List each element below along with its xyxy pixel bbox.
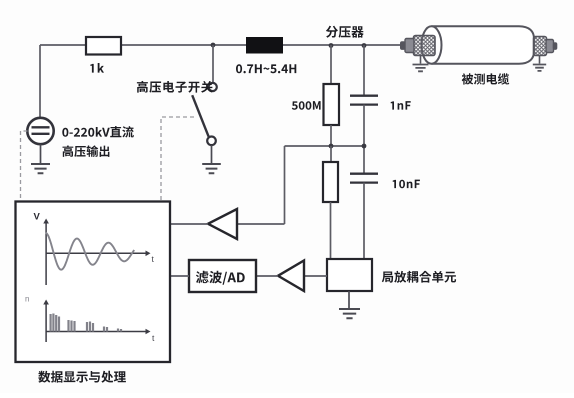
- cable right connector hatched: [534, 37, 547, 56]
- wire source drop: [39, 45, 41, 118]
- label 高压输出: [63, 145, 110, 157]
- waveform damped sine: [46, 233, 135, 270]
- discharge bars: [50, 314, 52, 332]
- wire filter box to display: [170, 275, 189, 277]
- switch S1 high-voltage electronic switch: [209, 83, 217, 91]
- capacitor C2 10nF: [350, 174, 378, 183]
- node junction divider R top: [329, 43, 334, 48]
- wire switch drop: [212, 45, 214, 83]
- wire R2 to tap: [330, 125, 332, 146]
- node junction at switch tap: [211, 43, 216, 48]
- node tap R: [329, 144, 334, 149]
- cable left connector block: [405, 39, 414, 53]
- dashed control line from source: [21, 131, 28, 201]
- inductor L1: [246, 37, 283, 54]
- svg-text:n: n: [25, 295, 29, 304]
- resistor R2 500M: [324, 84, 340, 125]
- wire C2 to coupling box: [363, 183, 365, 259]
- wire cable left ground: [420, 56, 422, 64]
- wire divider top: [330, 45, 332, 84]
- label 分压器: [326, 26, 364, 38]
- plot1 x-axis: [46, 252, 147, 254]
- op-amp U2: [278, 261, 304, 292]
- ground G5 cable right: [533, 65, 546, 71]
- cable left connector hatched: [414, 36, 436, 56]
- wire cable right ground: [539, 56, 541, 64]
- wire amp2 to filter box: [256, 275, 278, 277]
- label 局放耦合单元: [382, 271, 456, 283]
- dashed control line from switch: [161, 117, 194, 201]
- cable right connector block: [546, 40, 554, 53]
- cable left end cap: [422, 26, 442, 63]
- label 0-220kV直流: [62, 126, 134, 137]
- wire R3 to coupling box: [330, 202, 332, 259]
- ground G4 cable left: [413, 65, 429, 72]
- wire top bus right: [283, 44, 401, 46]
- label 0.7H~5.4H: [236, 64, 296, 73]
- label 10nF: [393, 180, 420, 189]
- wire C1 to tap: [363, 105, 365, 173]
- label 1nF: [391, 101, 411, 110]
- wire tap down to amp1: [284, 146, 286, 224]
- wire top bus left: [40, 44, 86, 46]
- label 500M: [292, 101, 321, 110]
- wire top bus middle: [121, 44, 246, 46]
- ground G3: [339, 309, 360, 318]
- label 滤波/AD: [196, 271, 245, 285]
- wire tap horizontal: [285, 145, 365, 147]
- resistor R3: [323, 162, 338, 202]
- label 被测电缆: [462, 73, 510, 84]
- coupling unit box: [327, 259, 372, 291]
- source V1 0-220kV DC: [27, 118, 53, 144]
- node junction divider C top: [362, 43, 367, 48]
- capacitor C1 1nF: [350, 96, 378, 105]
- cable right connector nub: [553, 42, 558, 50]
- wire switch to ground: [211, 145, 213, 163]
- ground G2: [202, 164, 221, 173]
- wire cap chain top: [363, 45, 365, 95]
- svg-text:V: V: [34, 212, 41, 223]
- op-amp U1: [208, 209, 237, 239]
- label 1k: [90, 63, 104, 73]
- label 高压电子开关: [137, 81, 213, 93]
- node tap C: [362, 144, 367, 149]
- filter/AD box: [189, 260, 256, 292]
- display box: [16, 202, 171, 363]
- plot2 y-axis: [45, 303, 47, 342]
- ground G1: [31, 164, 50, 173]
- wire coupling box to ground: [348, 291, 350, 308]
- plot2 x-axis: [46, 331, 147, 333]
- wire source to ground: [40, 144, 42, 163]
- wire amp1 to display: [170, 223, 208, 225]
- cable body: [432, 26, 535, 64]
- resistor R1 1k: [86, 37, 121, 55]
- cable left connector nub: [400, 41, 406, 50]
- plot1 y-axis: [45, 222, 47, 285]
- wire coupling to amp2: [304, 275, 327, 277]
- wire tap to R3: [330, 146, 332, 162]
- label 数据显示与处理: [38, 371, 126, 383]
- wire amp1 input: [237, 223, 285, 225]
